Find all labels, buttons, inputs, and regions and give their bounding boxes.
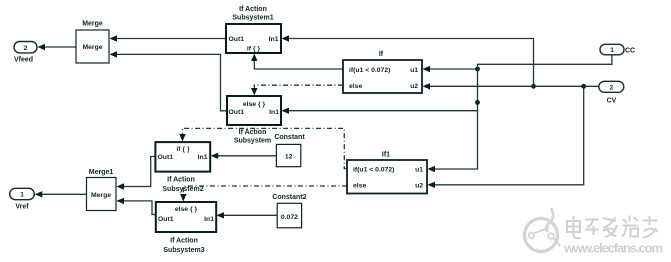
dash-dot wire: If1 else-output to Subsystem3 top bbox=[183, 186, 347, 195]
svg-text:CV: CV bbox=[607, 98, 617, 105]
wire: CC junction to If u1 bbox=[429, 68, 478, 70]
svg-text:Out1: Out1 bbox=[158, 154, 174, 161]
wire: CC port down and left, vertical trunk to If1 u1 bbox=[434, 55, 612, 169]
svg-text:Constant2: Constant2 bbox=[272, 194, 306, 201]
arrowhead into Subsystem2 In1 bbox=[211, 153, 219, 159]
svg-text:Out1: Out1 bbox=[158, 216, 174, 223]
svg-text:CC: CC bbox=[625, 48, 635, 55]
output port 2 Vfeed oval bbox=[14, 42, 37, 53]
svg-text:If Action: If Action bbox=[167, 177, 195, 184]
wire: Subsystem2 Out1 to Merge1 in1 bbox=[118, 157, 156, 187]
svg-text:Out1: Out1 bbox=[229, 36, 245, 43]
watermark hanzi 电子发烧友 bbox=[567, 216, 658, 239]
arrowhead into If1 u2 bbox=[428, 182, 436, 188]
svg-text:if(u1 < 0.072): if(u1 < 0.072) bbox=[353, 166, 394, 173]
svg-text:If Action: If Action bbox=[239, 6, 267, 13]
arrowhead up into Subsystem1 if port bbox=[251, 54, 257, 62]
wire: If if-output action line to Subsystem1 bottom bbox=[254, 60, 343, 69]
wire: CV port line to If u2 bbox=[429, 85, 599, 87]
svg-text:2: 2 bbox=[609, 85, 613, 92]
svg-text:u2: u2 bbox=[415, 183, 423, 190]
svg-text:Vfeed: Vfeed bbox=[14, 57, 33, 64]
wire: Merge1 output to Vref port bbox=[42, 193, 87, 195]
wire: CV net to Subsystem1 In1 (from vertical x=533.5) bbox=[288, 39, 534, 87]
svg-text:Out1: Out1 bbox=[229, 109, 245, 116]
svg-text:else { }: else { } bbox=[243, 101, 266, 108]
svg-text:u1: u1 bbox=[415, 166, 423, 173]
input port 1 CC oval bbox=[600, 44, 624, 55]
svg-text:In1: In1 bbox=[269, 36, 279, 43]
wire: else-subsystem Out1 to Merge in2 bbox=[117, 54, 227, 110]
arrowhead into If1 u1 bbox=[428, 166, 436, 172]
svg-text:1: 1 bbox=[20, 192, 24, 199]
svg-text:Vref: Vref bbox=[15, 204, 29, 211]
wire: CC net to else-subsystem In1 bbox=[288, 110, 478, 112]
If Action Subsystem (else) block bbox=[227, 96, 281, 125]
dash-dot wire: If1 if-output to Subsystem2 top bbox=[183, 128, 348, 168]
svg-text:Merge1: Merge1 bbox=[89, 169, 114, 176]
input port 2 CV oval bbox=[599, 81, 624, 92]
wire: Subsystem3 Out1 to Merge1 in2 bbox=[118, 201, 156, 215]
svg-text:Constant: Constant bbox=[274, 134, 305, 141]
svg-text:Merge: Merge bbox=[82, 21, 103, 28]
wire: CV down trunk to If1 u2 bbox=[434, 86, 584, 185]
svg-text:1: 1 bbox=[610, 47, 614, 54]
arrowhead into else-subsystem In1 bbox=[282, 108, 290, 114]
wire: Subsystem1 Out1 to Merge in1 bbox=[117, 38, 226, 40]
arrowhead into Vfeed oval bbox=[38, 44, 46, 50]
svg-text:if { }: if { } bbox=[247, 46, 261, 53]
Merge1 block bbox=[87, 178, 117, 211]
svg-text:else: else bbox=[353, 183, 366, 190]
Constant2 block 0.072 bbox=[277, 203, 301, 228]
Merge block (top) bbox=[76, 30, 109, 63]
arrowhead into Subsystem3 In1 bbox=[217, 212, 225, 218]
svg-text:www.elecfans.com: www.elecfans.com bbox=[563, 241, 663, 256]
arrowhead into If u2 bbox=[423, 83, 431, 89]
svg-text:else: else bbox=[349, 83, 362, 90]
arrowhead into Merge1 in1 bbox=[117, 183, 125, 189]
svg-text:12: 12 bbox=[285, 154, 293, 161]
output port 1 Vref oval bbox=[10, 188, 35, 199]
svg-text:In1: In1 bbox=[269, 109, 279, 116]
junction on CV line bbox=[531, 84, 536, 89]
If Action Subsystem1 block bbox=[226, 24, 281, 53]
junction dot on CC trunk bbox=[475, 100, 480, 105]
If1 block bbox=[347, 160, 427, 194]
svg-text:If1: If1 bbox=[382, 152, 390, 159]
Constant block 12 bbox=[276, 144, 300, 166]
svg-text:Subsystem: Subsystem bbox=[234, 138, 271, 145]
wire: Merge output to Vfeed port bbox=[44, 46, 76, 48]
svg-text:If Action: If Action bbox=[239, 129, 267, 136]
svg-text:u2: u2 bbox=[410, 83, 418, 90]
svg-text:Merge: Merge bbox=[91, 192, 111, 199]
arrowhead into Merge in1 bbox=[110, 35, 118, 41]
svg-text:If Action: If Action bbox=[170, 238, 198, 245]
junction dot CC at u1 level bbox=[475, 67, 480, 72]
svg-text:u1: u1 bbox=[410, 67, 418, 74]
svg-text:2: 2 bbox=[24, 45, 28, 52]
svg-text:else { }: else { } bbox=[175, 206, 198, 213]
svg-text:If: If bbox=[379, 51, 384, 58]
svg-text:0.072: 0.072 bbox=[281, 214, 298, 221]
wire: Constant2 to Subsystem3 In1 bbox=[223, 214, 277, 216]
arrowhead down into Subsystem2 if port bbox=[179, 134, 185, 142]
arrowhead down into else-subsystem bbox=[251, 88, 257, 96]
wire: If else-output dash-dot action line to else-subsystem top bbox=[254, 85, 343, 89]
svg-text:Subsystem1: Subsystem1 bbox=[232, 15, 273, 22]
junction dot CV at x=583.7 bbox=[581, 84, 586, 89]
arrowhead into Subsystem1 In1 bbox=[282, 35, 290, 41]
arrowhead into Merge in2 bbox=[110, 51, 118, 57]
If Action Subsystem3 block bbox=[156, 202, 216, 232]
If block bbox=[343, 60, 422, 93]
arrowhead into Merge1 in2 bbox=[117, 198, 125, 204]
watermark logo circle bbox=[525, 208, 561, 252]
arrowhead into Vref oval bbox=[35, 191, 43, 197]
wire: Constant 12 to Subsystem2 In1 bbox=[217, 155, 276, 157]
svg-text:if(u1 < 0.072): if(u1 < 0.072) bbox=[349, 67, 390, 74]
svg-text:In1: In1 bbox=[204, 216, 214, 223]
svg-text:if { }: if { } bbox=[176, 146, 190, 153]
arrowhead down into Subsystem3 else port bbox=[180, 194, 186, 202]
svg-text:In1: In1 bbox=[198, 154, 208, 161]
If Action Subsystem2 block bbox=[155, 142, 210, 172]
svg-text:Merge: Merge bbox=[82, 44, 102, 51]
arrowhead into If u1 bbox=[423, 66, 431, 72]
svg-text:Subsystem3: Subsystem3 bbox=[163, 247, 204, 254]
